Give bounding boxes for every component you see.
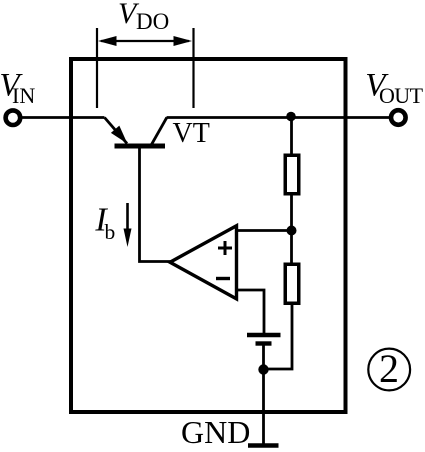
svg-text:DO: DO <box>136 9 169 34</box>
svg-text:2: 2 <box>379 346 399 391</box>
svg-text:VT: VT <box>173 118 210 149</box>
svg-text:b: b <box>105 220 116 244</box>
svg-text:IN: IN <box>12 83 35 108</box>
svg-text:GND: GND <box>181 414 250 450</box>
svg-text:OUT: OUT <box>379 83 424 108</box>
